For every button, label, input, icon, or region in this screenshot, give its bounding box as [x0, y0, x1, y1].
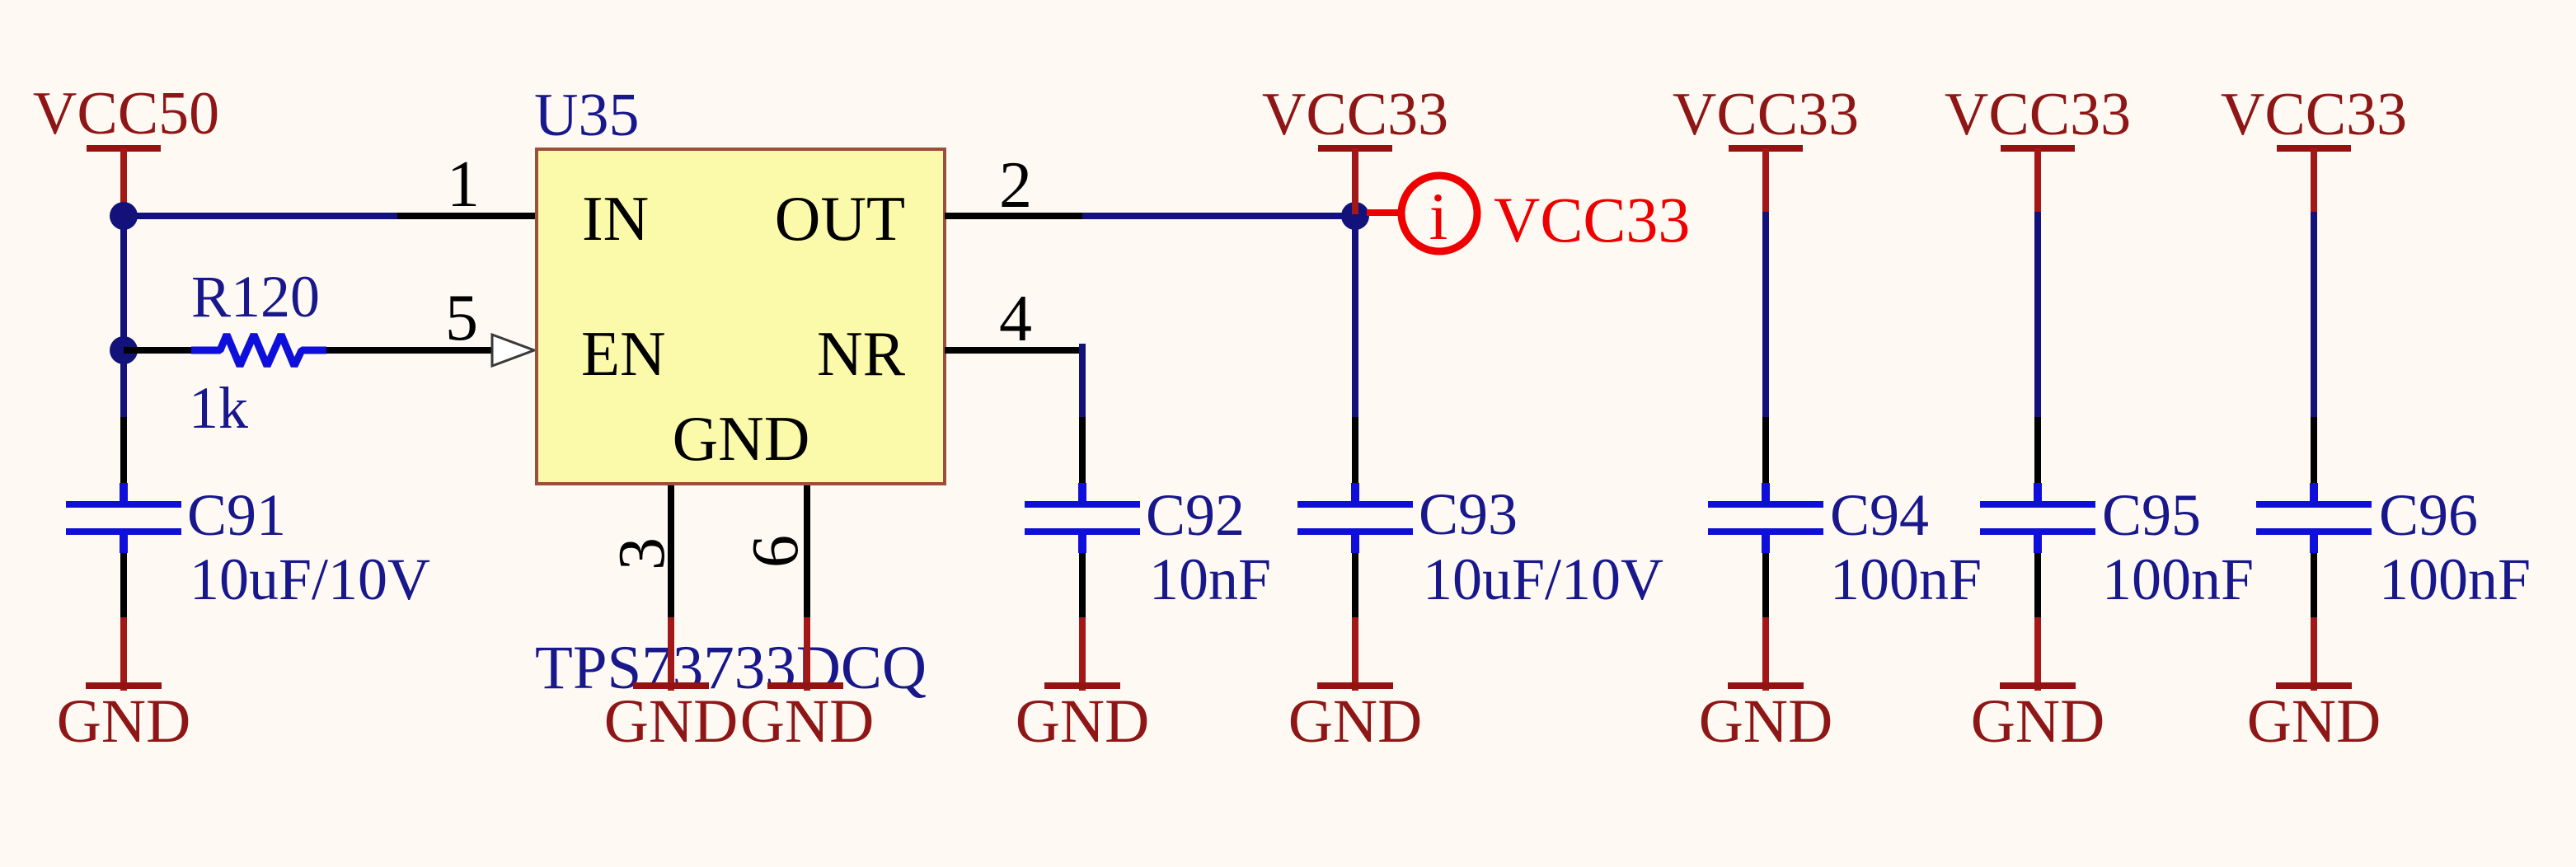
net label flag VCC33 — [1367, 176, 1690, 255]
power port VCC50 — [33, 80, 219, 214]
svg-text:GND: GND — [604, 687, 739, 756]
ground GND under C91 — [57, 617, 191, 756]
wire J1 to J2 — [120, 216, 127, 350]
svg-text:100nF: 100nF — [2379, 546, 2531, 612]
svg-text:VCC50: VCC50 — [33, 80, 219, 148]
svg-text:GND: GND — [1971, 687, 2105, 756]
svg-text:VCC33: VCC33 — [2221, 81, 2407, 148]
svg-text:GND: GND — [740, 687, 875, 756]
svg-text:10nF: 10nF — [1149, 546, 1271, 612]
svg-text:1k: 1k — [189, 375, 248, 441]
svg-text:C91: C91 — [187, 482, 286, 548]
resistor R120 value 1k — [124, 264, 379, 441]
svg-text:4: 4 — [999, 283, 1032, 355]
capacitor C93 — [1297, 417, 1663, 617]
svg-text:100nF: 100nF — [2102, 546, 2254, 612]
ground GND under C94 — [1699, 617, 1833, 756]
wire VCC33 to C95 — [2034, 212, 2041, 417]
power port VCC33 above J3 — [1262, 81, 1448, 214]
svg-text:C93: C93 — [1419, 481, 1518, 547]
pin 1 IN of U35 — [397, 148, 535, 221]
svg-text:U35: U35 — [534, 82, 639, 149]
svg-text:10uF/10V: 10uF/10V — [190, 546, 430, 612]
node junction J3 — [1341, 202, 1369, 230]
ground GND under C92 — [1016, 617, 1150, 756]
power port VCC33 above C95 — [1945, 81, 2131, 212]
svg-text:NR: NR — [817, 318, 906, 389]
ground GND under pin 6 — [740, 617, 875, 756]
pin 3 GND of U35 — [606, 485, 678, 617]
svg-text:GND: GND — [1016, 687, 1150, 756]
capacitor C94 — [1708, 417, 1982, 617]
pin 5 EN of U35 with input arrow and pin number — [379, 282, 534, 366]
svg-text:1: 1 — [447, 148, 480, 221]
svg-text:VCC33: VCC33 — [1673, 81, 1859, 148]
svg-text:C92: C92 — [1146, 482, 1245, 548]
svg-text:GND: GND — [2247, 687, 2381, 756]
ground GND under C93 — [1288, 617, 1423, 756]
svg-text:EN: EN — [581, 318, 666, 389]
svg-text:C94: C94 — [1830, 482, 1929, 548]
svg-text:VCC33: VCC33 — [1494, 184, 1690, 255]
wire VCC33 to C96 — [2311, 212, 2317, 417]
capacitor C91 — [66, 417, 430, 617]
wire J3 down to C93 — [1352, 216, 1358, 417]
svg-text:10uF/10V: 10uF/10V — [1423, 546, 1663, 612]
wire J1 to pin1 — [124, 213, 397, 219]
wire VCC33 to C94 — [1762, 212, 1769, 417]
IC U35 TPS73733DCQ regulator body — [534, 82, 945, 484]
svg-text:R120: R120 — [191, 264, 320, 330]
svg-text:6: 6 — [739, 535, 812, 568]
capacitor C96 — [2256, 417, 2531, 617]
node junction J2 — [110, 336, 138, 364]
ground GND under pin 3 — [604, 617, 739, 756]
ground GND under C96 — [2247, 617, 2381, 756]
svg-text:GND: GND — [1699, 687, 1833, 756]
svg-text:OUT: OUT — [775, 183, 905, 254]
pin 6 GND of U35 — [739, 485, 812, 617]
capacitor C92 — [1025, 417, 1271, 617]
pin 4 NR of U35 — [945, 283, 1086, 355]
svg-text:C96: C96 — [2379, 482, 2478, 548]
power port VCC33 above C94 — [1673, 81, 1859, 212]
svg-text:VCC33: VCC33 — [1945, 81, 2131, 148]
wire J2 to C91 — [120, 350, 127, 417]
capacitor C95 — [1980, 417, 2254, 617]
power port VCC33 above C96 — [2221, 81, 2407, 212]
svg-text:IN: IN — [582, 183, 649, 254]
svg-text:5: 5 — [445, 282, 478, 354]
ground GND under C95 — [1971, 617, 2105, 756]
pin 2 OUT of U35 — [945, 149, 1082, 222]
svg-text:100nF: 100nF — [1830, 546, 1982, 612]
svg-text:VCC33: VCC33 — [1262, 81, 1448, 148]
svg-text:2: 2 — [999, 149, 1032, 222]
svg-text:GND: GND — [57, 687, 191, 756]
node junction J1 — [110, 202, 138, 230]
wire pin2 to J3 — [1082, 213, 1355, 219]
wire pin4 corner down to C92 — [1079, 344, 1086, 417]
svg-text:GND: GND — [1288, 687, 1423, 756]
svg-text:C95: C95 — [2102, 482, 2201, 548]
svg-text:GND: GND — [673, 403, 810, 474]
svg-text:i: i — [1429, 179, 1448, 254]
svg-text:3: 3 — [606, 537, 678, 570]
